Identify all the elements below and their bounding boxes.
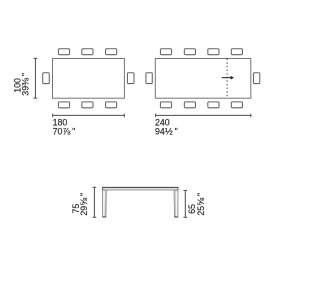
table T1 (180cm top view)	[53, 59, 125, 99]
svg-text:29⅝ ": 29⅝ "	[79, 193, 90, 216]
chair T1 top 3	[106, 49, 117, 55]
extension arrow	[222, 76, 234, 80]
chair T1 bottom 1	[58, 102, 69, 108]
chair T1 bottom 2	[82, 102, 93, 108]
front view tabletop	[102, 187, 178, 190]
svg-text:39⅜ ": 39⅜ "	[20, 73, 31, 96]
front view left leg	[102, 190, 106, 217]
chair T2 bottom 3	[208, 102, 219, 108]
dimension line depth 100	[34, 58, 38, 98]
chair T2 left	[146, 73, 152, 84]
chair T2 top 2	[184, 49, 195, 55]
front view right leg	[174, 190, 178, 217]
chair T1 top 2	[82, 49, 93, 55]
chair T1 top 1	[58, 49, 69, 55]
dimension line height 75	[93, 187, 97, 217]
dimension line width 240	[156, 114, 251, 118]
svg-text:94½ ": 94½ "	[155, 126, 178, 137]
dimension line width 180	[53, 114, 125, 118]
chair T2 right	[253, 73, 259, 84]
chair T1 bottom 3	[106, 102, 117, 108]
chair T1 left	[43, 73, 50, 84]
svg-text:25⅝ ": 25⅝ "	[196, 193, 207, 216]
chair T2 top 3	[208, 49, 219, 55]
table T2 (240cm top view, extendable)	[155, 59, 251, 99]
chair T2 bottom 1	[160, 102, 171, 108]
extension leaf dotted line	[226, 59, 228, 98]
chair T2 bottom 4	[231, 102, 242, 108]
chair T1 right	[127, 73, 134, 84]
svg-text:70⅞ ": 70⅞ "	[53, 126, 76, 137]
chair T2 bottom 2	[184, 102, 195, 108]
dimension line height 65	[184, 190, 188, 217]
chair T2 top 4	[231, 49, 242, 55]
chair T2 top 1	[160, 49, 171, 55]
